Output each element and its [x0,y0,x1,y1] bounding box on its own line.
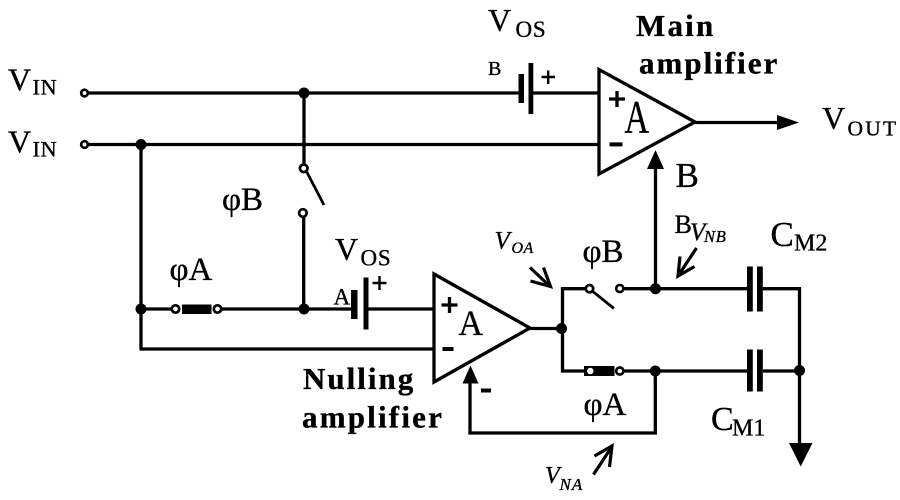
svg-text:φB: φB [583,234,624,270]
capacitor CM1 [747,350,763,392]
wire left vertical from VIN- junction [139,145,142,350]
wire junction to phiA switch [141,307,171,310]
op-amp U1 main amplifier [599,70,695,175]
svg-text:NA: NA [559,475,584,494]
switch phiA (closed) [172,305,221,315]
svg-text:B: B [488,58,501,80]
label B (node) [676,156,699,195]
label CM2 [771,215,828,257]
arrow VOA [530,268,551,287]
arrow VNA [594,446,613,475]
wire feedback to nulling inverting input [463,366,656,434]
node VIN- terminal [81,141,88,148]
node junction phiA row [136,304,147,315]
arrow VNB [678,248,697,276]
svg-text:V: V [488,2,511,38]
node junction right vertical [794,365,805,376]
svg-text:V: V [8,124,31,160]
label Nulling amplifier [302,361,444,435]
wire battery B to main amp non-inverting input [533,91,599,94]
svg-text:φA: φA [584,387,627,423]
wire nulling output [530,327,562,330]
label A (battery A phase) [334,285,351,310]
svg-text:OA: OA [512,240,534,257]
wire phiA switch to CM1 [624,369,747,372]
node junction phiB bottom [299,304,310,315]
wire lower-left to nulling amp inverting input [140,347,435,350]
switch phiA (nulling, closed) [584,366,623,376]
switch phiB (nulling, open) [586,285,624,309]
svg-text:C: C [771,215,794,254]
svg-text:Main: Main [636,8,715,43]
node junction VNA [650,366,661,377]
wire main amp output [695,121,780,124]
label VOS (main) [488,2,547,42]
wire node B arrow to main amp [647,150,664,289]
switch phiB (input, open) [299,165,324,217]
label - (feedback) [481,389,491,393]
ground [789,443,813,467]
svg-text:φA: φA [170,252,213,288]
label VOA [495,228,534,258]
capacitor CM2 [747,267,763,312]
svg-text:Nulling: Nulling [303,361,415,396]
svg-text:V: V [822,100,845,136]
svg-text:IN: IN [33,137,58,162]
op-amp U2 nulling amplifier [434,274,530,382]
wire up branch to phiB switch [563,289,585,329]
label CM1 [711,401,765,442]
label VOUT [822,100,898,141]
node nulling output junction [556,323,567,334]
wire phiB switch to CM2 [624,287,747,290]
wire VIN+ to battery B [89,91,519,94]
wire phiA switch to battery A [222,307,351,310]
svg-text:A: A [459,303,484,343]
label VIN- [8,124,57,162]
svg-text:A: A [625,92,650,144]
svg-text:V: V [8,62,31,98]
node junction B [650,283,661,294]
label B VNB [675,210,727,246]
svg-text:V: V [335,231,358,267]
svg-text:B: B [676,156,699,195]
svg-text:M1: M1 [732,416,765,442]
wire battery A to nulling amp non-inverting input [369,307,435,310]
wire VIN- to main amp inverting input [89,143,599,146]
label + of battery A [373,276,387,290]
battery VOS-A [351,278,369,330]
wire phiB switch to phiA row [302,218,305,309]
label VNA [545,463,583,494]
label phiB (nulling) [583,234,624,270]
svg-text:NB: NB [703,227,727,246]
svg-text:amplifier: amplifier [302,400,444,435]
battery VOS-B [519,63,534,114]
svg-text:OS: OS [361,246,392,271]
wire down branch to phiA switch [563,329,585,372]
svg-text:amplifier: amplifier [639,46,779,81]
label phiA (nulling) [584,387,627,423]
label VIN+ [8,62,57,100]
svg-text:A: A [334,285,351,310]
arrow output [777,115,799,130]
node VIN+ terminal [81,90,88,97]
label + of battery B [542,71,556,85]
svg-text:OS: OS [516,17,547,42]
wire CM1 to right vertical [763,369,800,372]
label Main amplifier [636,8,779,81]
label phiB [222,182,263,218]
svg-text:IN: IN [33,75,58,100]
label VOS (nulling) [335,231,392,271]
label B (battery B phase) [488,58,501,80]
svg-text:C: C [711,401,734,438]
node junction on VIN- wire [136,139,147,150]
label phiA [170,252,213,288]
svg-text:φB: φB [222,182,263,218]
svg-text:M2: M2 [794,231,827,257]
svg-text:OUT: OUT [848,117,899,141]
node junction on VIN+ wire [299,88,310,99]
wire CM2 to right vertical [763,289,800,447]
wire phiB top vertical from VIN+ junction [302,93,305,164]
